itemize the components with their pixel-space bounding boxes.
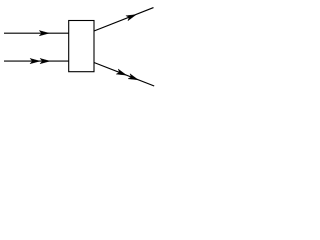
arrowhead on top-left wire [39, 31, 49, 36]
arrowhead on top-right wire [126, 15, 136, 21]
wire outgoing bottom-right [94, 63, 154, 87]
wire outgoing top-right [94, 8, 154, 31]
arrowhead 1 on bottom-right wire [116, 69, 126, 75]
arrowhead 2 on bottom-right wire [128, 74, 138, 80]
arrowhead 1 on bottom-left wire [30, 58, 40, 63]
wire incoming bottom-left [4, 60, 69, 62]
arrowhead 2 on bottom-left wire [40, 58, 50, 63]
block (interaction box) [69, 21, 94, 72]
wire incoming top-left [4, 32, 69, 34]
